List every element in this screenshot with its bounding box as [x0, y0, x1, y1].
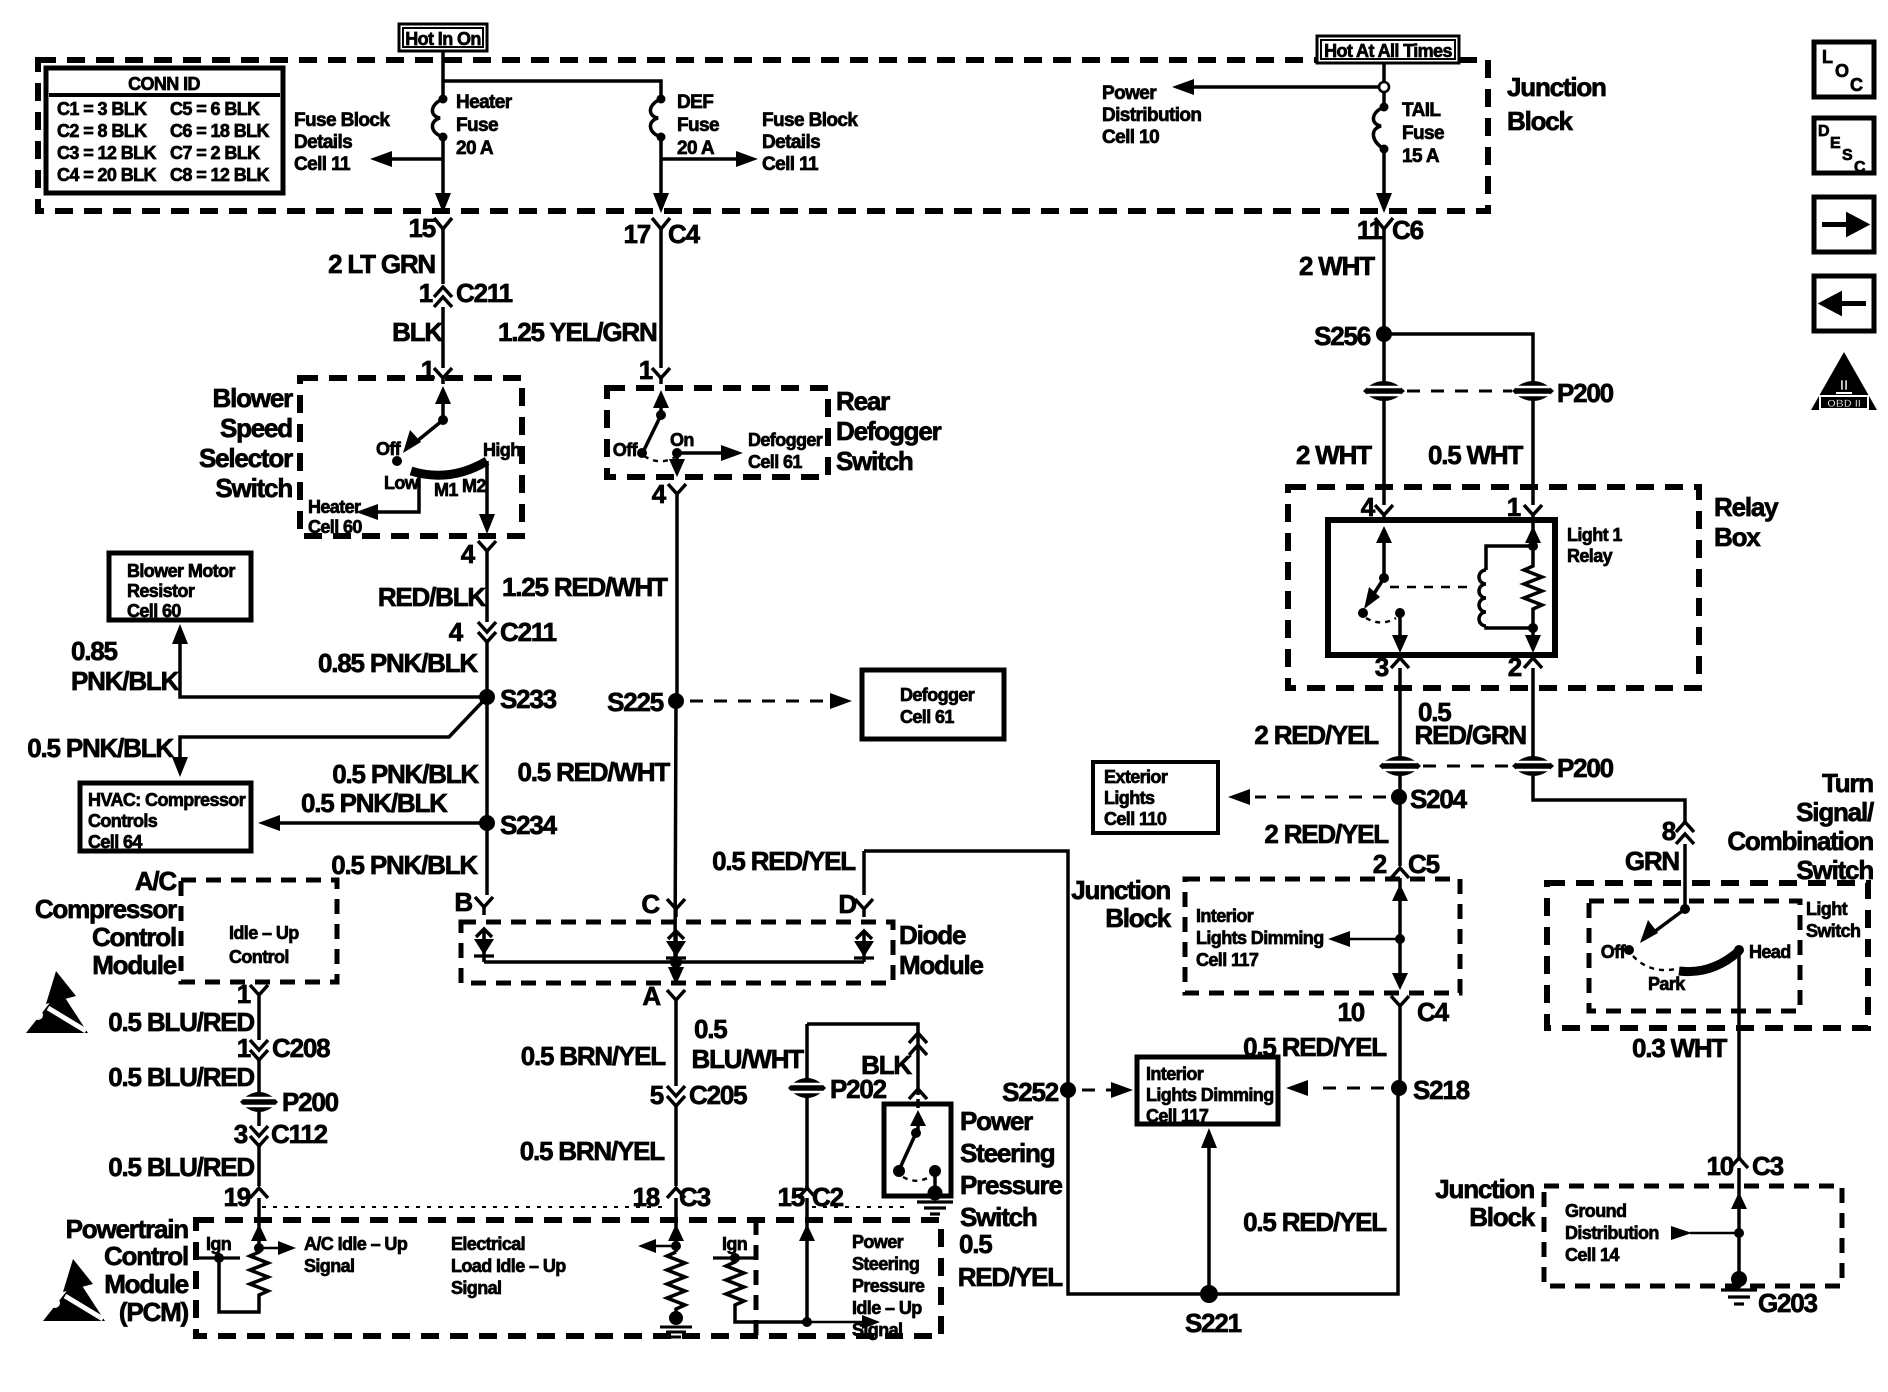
connector 15 C2 at PCM [777, 1182, 843, 1219]
svg-text:15: 15 [408, 213, 435, 243]
connector 1 at blower switch [421, 355, 452, 385]
svg-text:1: 1 [639, 355, 653, 385]
wire heater fuse to connector 15 [441, 137, 445, 205]
page connector chevrons 8 GRN [1662, 816, 1694, 846]
svg-text:C4: C4 [1417, 997, 1450, 1027]
junction block label (middle) [1071, 875, 1171, 933]
wire C211 to blower switch [441, 307, 445, 368]
Powertrain Control Module dashed box [196, 1220, 941, 1336]
relay output wire to pin 3 [1392, 613, 1408, 653]
grommet P200 (left, 2 WHT) [1363, 381, 1405, 401]
Junction Block dashed box (interior lights dimming) [1185, 879, 1460, 993]
svg-text:L: L [1822, 47, 1833, 67]
Hot In On label box [399, 24, 487, 51]
wire 11 C6 to S256 [1382, 234, 1386, 395]
svg-text:Details: Details [294, 132, 352, 153]
Light Switch label [1806, 899, 1860, 941]
arrow down to HVAC box [172, 757, 188, 777]
Light Switch dashed box [1589, 901, 1800, 1011]
svg-text:C5 = 6 BLK: C5 = 6 BLK [170, 99, 260, 119]
blower switch High output wire [479, 461, 495, 534]
svg-text:S221: S221 [1185, 1308, 1242, 1338]
svg-text:Ign: Ign [722, 1234, 747, 1254]
svg-text:0.5 BRN/YEL: 0.5 BRN/YEL [521, 1041, 667, 1071]
svg-text:G203: G203 [1758, 1288, 1818, 1318]
svg-text:Junction: Junction [1507, 72, 1606, 102]
light switch dashed travel arc [1633, 956, 1676, 970]
svg-text:Fuse: Fuse [1402, 123, 1444, 144]
defogger switch input arrow [653, 390, 669, 420]
dashed arrow S204 to Exterior Lights box [1228, 789, 1386, 805]
svg-text:C4: C4 [668, 219, 701, 249]
diode C [666, 931, 686, 962]
svg-text:4: 4 [449, 617, 464, 647]
svg-text:Details: Details [762, 132, 820, 153]
svg-text:Lights Dimming: Lights Dimming [1196, 928, 1324, 948]
svg-text:P200: P200 [1557, 378, 1614, 408]
svg-text:0.5 PNK/BLK: 0.5 PNK/BLK [332, 759, 479, 789]
svg-text:High: High [483, 440, 521, 460]
blower switch Low tap to Heater Cell 60 [308, 474, 419, 537]
svg-text:C8 = 12 BLK: C8 = 12 BLK [170, 165, 270, 185]
fuse Heater Fuse 20 A [432, 92, 512, 159]
defogger Off contact [613, 440, 647, 460]
connector 11 C6 [1357, 215, 1424, 245]
page connector chevrons on BLK wire [909, 1033, 927, 1055]
svg-text:Light: Light [1806, 899, 1848, 919]
dashed arrow S225 to Defogger Cell 61 box [690, 693, 852, 709]
Light 1 Relay solid box [1328, 520, 1555, 655]
PCM pin 19 internal circuit [251, 1219, 296, 1255]
connector C [641, 889, 685, 919]
wire TAIL fuse to connector 11 [1382, 149, 1386, 205]
svg-text:2 RED/YEL: 2 RED/YEL [1254, 720, 1379, 750]
relay pin 2 connector [1508, 652, 1542, 682]
Turn Signal Combination Switch dashed box [1547, 883, 1868, 1028]
svg-text:Fuse: Fuse [677, 115, 719, 136]
svg-text:Light 1: Light 1 [1567, 525, 1622, 545]
Exterior Lights Cell 110 box [1093, 762, 1218, 833]
wire S233 to Blower Motor Resistor with arrow [172, 624, 487, 697]
node S221 with arrow up [1185, 1128, 1242, 1338]
svg-text:1: 1 [237, 979, 251, 1009]
blower switch input arrow [435, 386, 451, 425]
svg-text:A/C Idle – Up: A/C Idle – Up [304, 1234, 408, 1254]
svg-text:Cell 60: Cell 60 [127, 601, 181, 621]
connector 4 below defogger switch [652, 479, 686, 509]
svg-text:3: 3 [1375, 652, 1389, 682]
node S218 [1391, 1075, 1470, 1105]
arrow to Fuse Block Details Cell 11 (left) [294, 110, 443, 175]
svg-text:A/C: A/C [135, 866, 178, 896]
wire Head output 0.3 WHT [1737, 950, 1741, 1158]
svg-text:C6: C6 [1392, 215, 1424, 245]
Powertrain Control Module label [66, 1214, 189, 1327]
svg-text:0.5 RED/YEL: 0.5 RED/YEL [1243, 1032, 1387, 1062]
svg-text:Defogger: Defogger [900, 685, 975, 705]
blower switch wiper arm to Off [392, 420, 443, 466]
svg-text:Block: Block [1507, 106, 1574, 136]
svg-text:PNK/BLK: PNK/BLK [71, 666, 180, 696]
resistor (A/C idle-up) [219, 1248, 268, 1312]
svg-text:Block: Block [1105, 903, 1172, 933]
wire 17 to defogger switch [659, 234, 663, 368]
svg-text:D: D [1818, 123, 1830, 140]
svg-text:Speed: Speed [220, 413, 292, 443]
wire C to A output arrow [668, 962, 684, 985]
junction block (fuse block) outer dashed box [38, 60, 1488, 211]
relay pin 4 connector [1361, 492, 1393, 522]
Diode Module label [899, 920, 984, 980]
defogger output wire [669, 453, 685, 477]
svg-text:Cell 64: Cell 64 [88, 832, 142, 852]
Interior Lights Dimming Cell 117 box [1137, 1057, 1278, 1126]
relay switch arm [1358, 578, 1384, 618]
svg-text:0.85: 0.85 [71, 636, 118, 666]
connector C208 pin 1 [237, 1033, 330, 1063]
connector into power steering switch [909, 1089, 927, 1108]
wire to C211 pin 4 [485, 557, 489, 622]
svg-text:Junction: Junction [1071, 875, 1170, 905]
connector C211 pin 1 [419, 278, 513, 308]
Turn Signal Combination Switch label [1727, 768, 1874, 885]
svg-text:Control: Control [229, 947, 289, 967]
svg-text:(PCM): (PCM) [119, 1297, 189, 1327]
thin dotted connector line C3 [262, 1206, 666, 1208]
svg-text:Fuse Block: Fuse Block [294, 110, 390, 131]
arrow ground distribution to wire [1671, 1226, 1744, 1240]
node S204 [1391, 776, 1468, 866]
svg-text:Off: Off [1601, 942, 1627, 962]
right arrow icon [1814, 197, 1874, 252]
arrow to Power Distribution Cell 10 [1102, 79, 1389, 148]
connector 10 C3 [1706, 1151, 1783, 1186]
dashed arrow S218 to Interior Lights Dimming box [1286, 1080, 1384, 1096]
connector 10 C4 [1337, 996, 1449, 1027]
svg-text:Defogger: Defogger [748, 430, 823, 450]
node S234 with arrow to HVAC [258, 810, 558, 840]
svg-text:Switch: Switch [1806, 921, 1860, 941]
wire C211 to S233 [485, 642, 489, 697]
svg-text:Power: Power [960, 1106, 1033, 1136]
connector C211 pin 4 [449, 617, 557, 647]
connector 17 C4 [623, 218, 700, 249]
svg-text:Switch: Switch [215, 473, 292, 503]
svg-text:II: II [1840, 377, 1848, 394]
wire C205 to PCM pin 18 [674, 1106, 678, 1219]
A/C Idle-Up Signal label [304, 1234, 408, 1276]
Rear Defogger Switch dashed box [607, 388, 828, 477]
svg-text:10: 10 [1337, 997, 1364, 1027]
svg-text:Module: Module [899, 950, 984, 980]
svg-text:GRN: GRN [1625, 846, 1680, 876]
svg-text:P202: P202 [830, 1074, 887, 1104]
svg-text:Off: Off [376, 439, 402, 459]
svg-text:Power: Power [852, 1232, 904, 1252]
wire Hot At All Times down [1382, 63, 1386, 103]
svg-text:Power: Power [1102, 83, 1157, 104]
svg-text:E: E [1830, 135, 1841, 152]
svg-text:On: On [670, 430, 694, 450]
svg-text:Distribution: Distribution [1565, 1223, 1659, 1243]
Defogger Cell 61 box [862, 670, 1004, 739]
svg-text:Steering: Steering [852, 1254, 919, 1274]
svg-text:S218: S218 [1413, 1075, 1470, 1105]
svg-text:2 LT GRN: 2 LT GRN [328, 249, 435, 279]
A/C Compressor Control Module label [35, 866, 178, 980]
wire BLK riser corner to P202 drop [807, 1024, 918, 1095]
svg-text:C7 = 2 BLK: C7 = 2 BLK [170, 143, 260, 163]
wire D drop into diode module [862, 851, 866, 895]
ground (electrical load) [660, 1311, 692, 1337]
connector C205 pin 5 [650, 1080, 747, 1110]
svg-text:C2: C2 [812, 1182, 844, 1212]
DESC icon [1814, 118, 1874, 176]
svg-text:Switch: Switch [836, 446, 913, 476]
svg-text:Ign: Ign [206, 1234, 231, 1254]
svg-text:RED/GRN: RED/GRN [1415, 720, 1527, 750]
svg-text:Relay: Relay [1714, 492, 1779, 522]
svg-text:Cell 11: Cell 11 [762, 154, 819, 175]
OBD II triangle icon [1811, 352, 1877, 410]
relay resistor [1524, 520, 1542, 633]
svg-text:C2 = 8 BLK: C2 = 8 BLK [57, 121, 147, 141]
svg-text:M1: M1 [434, 480, 458, 500]
svg-text:Switch: Switch [960, 1202, 1037, 1232]
A/C Compressor Control Module dashed box [181, 880, 337, 982]
Blower Speed Selector Switch dashed box [300, 378, 522, 536]
svg-text:Cell 60: Cell 60 [308, 517, 362, 537]
wire horizontal feed to DEF fuse [443, 81, 661, 95]
svg-text:TAIL: TAIL [1402, 100, 1441, 121]
Diode Module dashed box [461, 922, 893, 983]
svg-text:Cell 11: Cell 11 [294, 154, 351, 175]
node at C on bus [670, 956, 682, 968]
blower switch contact arc [411, 461, 487, 475]
Ign rail (right) [713, 1234, 757, 1263]
power steering switch contacts [893, 1110, 941, 1188]
connector 15 [408, 213, 452, 243]
junction block label [1507, 72, 1606, 136]
svg-text:P200: P200 [282, 1087, 339, 1117]
svg-text:20 A: 20 A [456, 138, 494, 159]
node S233 [479, 684, 557, 714]
svg-text:Defogger: Defogger [836, 416, 942, 446]
wire P200 to C112 [257, 1112, 261, 1126]
svg-text:Pressure: Pressure [960, 1170, 1062, 1200]
resistor (power steering) [726, 1258, 806, 1322]
svg-text:2 WHT: 2 WHT [1296, 440, 1372, 470]
wire DEF fuse to connector 17 [659, 137, 663, 205]
svg-text:Module: Module [92, 950, 177, 980]
svg-text:Module: Module [104, 1269, 189, 1299]
svg-text:C208: C208 [272, 1033, 330, 1063]
svg-text:S233: S233 [500, 684, 557, 714]
Hot At All Times label box [1317, 36, 1459, 63]
svg-text:4: 4 [652, 479, 667, 509]
svg-text:RED/YEL: RED/YEL [958, 1262, 1064, 1292]
PCM pin 15 internal circuit [799, 1219, 880, 1329]
wire into ground junction block [1731, 1186, 1747, 1277]
blower switch position labels [376, 439, 521, 500]
svg-text:0.5 BLU/RED: 0.5 BLU/RED [108, 1007, 254, 1037]
svg-text:Cell 10: Cell 10 [1102, 127, 1159, 148]
svg-text:Park: Park [1648, 974, 1686, 994]
svg-text:C: C [641, 889, 660, 919]
svg-text:Signal: Signal [451, 1278, 501, 1298]
svg-text:Fuse: Fuse [456, 115, 498, 136]
svg-text:S225: S225 [607, 687, 664, 717]
svg-text:Heater: Heater [308, 497, 361, 517]
svg-text:0.5 PNK/BLK: 0.5 PNK/BLK [27, 733, 174, 763]
wire 15 to C211 [441, 234, 445, 284]
defogger switch arm to Off [644, 415, 661, 450]
Ign rail (left) [199, 1234, 240, 1263]
ground at power steering switch [917, 1186, 953, 1215]
svg-text:Relay: Relay [1567, 546, 1613, 566]
svg-text:OBD II: OBD II [1827, 398, 1861, 410]
connector B [454, 887, 493, 917]
relay pin 1 internal down arrow [1525, 628, 1541, 653]
wire 10 C4 to S218 [1398, 1012, 1402, 1088]
wire 0.5 RED/GRN label [1415, 697, 1527, 750]
svg-text:Control: Control [104, 1241, 188, 1271]
relay switch common [1376, 526, 1392, 583]
svg-text:1.25 RED/WHT: 1.25 RED/WHT [502, 572, 668, 602]
svg-text:15: 15 [777, 1182, 804, 1212]
fuse DEF Fuse 20 A [650, 92, 719, 159]
light switch Off contact [1601, 942, 1634, 962]
svg-text:Rear: Rear [836, 386, 890, 416]
svg-text:0.3 WHT: 0.3 WHT [1632, 1033, 1727, 1063]
relay actuation dashed link [1390, 586, 1474, 589]
wire D branch from S252 riser [864, 851, 1068, 1090]
svg-text:0.5: 0.5 [694, 1014, 727, 1044]
svg-text:C: C [1854, 159, 1866, 176]
svg-text:1: 1 [419, 278, 433, 308]
svg-text:8: 8 [1662, 816, 1676, 846]
svg-text:C3 = 12 BLK: C3 = 12 BLK [57, 143, 157, 163]
dashed link between P200 grommets [1407, 390, 1512, 393]
svg-text:DEF: DEF [677, 92, 713, 113]
Power Steering Pressure Switch label [960, 1106, 1062, 1232]
svg-text:2 RED/YEL: 2 RED/YEL [1264, 819, 1389, 849]
Light 1 Relay label [1567, 525, 1622, 566]
svg-text:Switch: Switch [1796, 855, 1873, 885]
wire C112 to PCM pin 19 [257, 1146, 261, 1186]
svg-text:C112: C112 [271, 1119, 328, 1149]
svg-text:Interior: Interior [1146, 1064, 1204, 1084]
svg-text:BLK: BLK [392, 317, 443, 347]
svg-text:1: 1 [237, 1033, 251, 1063]
svg-text:C6 = 18 BLK: C6 = 18 BLK [170, 121, 270, 141]
svg-text:Control: Control [92, 922, 176, 952]
PCM internal dashed divider [754, 1220, 759, 1336]
svg-text:0.5 BLU/RED: 0.5 BLU/RED [108, 1152, 254, 1182]
resistor (electrical load) [667, 1252, 685, 1313]
svg-text:2 WHT: 2 WHT [1299, 251, 1375, 281]
connector D [838, 889, 873, 919]
svg-text:RED/BLK: RED/BLK [378, 582, 487, 612]
svg-text:S: S [1842, 147, 1853, 164]
svg-text:Selector: Selector [199, 443, 293, 473]
svg-text:C5: C5 [1408, 849, 1440, 879]
svg-text:Interior: Interior [1196, 906, 1254, 926]
svg-text:0.5: 0.5 [959, 1229, 992, 1259]
Relay Box dashed box [1288, 487, 1699, 688]
wire P202 drop [805, 1024, 809, 1190]
svg-text:C205: C205 [689, 1080, 747, 1110]
Electrical Load Idle-Up Signal label [451, 1234, 566, 1298]
HVAC Compressor Controls Cell 64 box [80, 783, 251, 852]
svg-text:S234: S234 [500, 810, 558, 840]
svg-text:Turn: Turn [1822, 768, 1873, 798]
junction block label (ground) [1435, 1174, 1535, 1232]
ESD symbol (PCM) [43, 1259, 105, 1321]
wire S233 diagonal to HVAC branch [180, 697, 487, 767]
svg-text:Hot In On: Hot In On [405, 29, 481, 49]
ground G203 [1721, 1271, 1818, 1318]
svg-text:Signal: Signal [304, 1256, 354, 1276]
svg-text:A: A [642, 981, 661, 1011]
svg-text:C211: C211 [456, 278, 513, 308]
svg-text:Powertrain: Powertrain [66, 1214, 189, 1244]
node S225 [607, 687, 684, 717]
wire 0.5 RED/YEL label (two lines) [958, 1229, 1064, 1292]
svg-text:20 A: 20 A [677, 138, 715, 159]
arrow to Fuse Block Details Cell 11 (right) [661, 110, 858, 175]
grommet P202 [788, 1074, 887, 1104]
wire C208 to P200 [257, 1060, 261, 1093]
Junction Block dashed box (ground distribution) [1544, 1186, 1842, 1286]
svg-text:M2: M2 [462, 476, 486, 496]
PCM pin 18 internal circuit [638, 1219, 684, 1253]
fuse TAIL Fuse 15 A [1373, 100, 1444, 167]
connector 18 C3 at PCM [632, 1182, 710, 1212]
node S256 with branch [1314, 321, 1533, 383]
svg-text:Junction: Junction [1435, 1174, 1534, 1204]
grommet P200 (pin 3 wire) [1379, 756, 1421, 776]
defogger On contact [670, 430, 694, 458]
svg-text:Distribution: Distribution [1102, 105, 1201, 126]
Idle-Up Control label [229, 923, 299, 967]
svg-text:0.5 RED/WHT: 0.5 RED/WHT [518, 757, 671, 787]
svg-text:Cell 110: Cell 110 [1104, 809, 1167, 829]
svg-text:Resistor: Resistor [127, 581, 195, 601]
wire P200 to light switch riser [1533, 776, 1685, 822]
Blower Speed Selector Switch label [199, 383, 293, 503]
diode B [474, 929, 494, 962]
relay switch closed contact [1366, 608, 1405, 623]
svg-text:B: B [454, 887, 472, 917]
svg-text:C3: C3 [679, 1182, 711, 1212]
light switch contact arc Park to Head [1679, 951, 1739, 972]
svg-text:0.85 PNK/BLK: 0.85 PNK/BLK [318, 648, 478, 678]
connector 1 at defogger switch [639, 355, 670, 385]
wire 0.5 BLU/WHT label [692, 1014, 805, 1074]
connector 2 C5 [1373, 849, 1440, 879]
diode D [854, 931, 874, 962]
wire from Hot In On to fuses [441, 51, 445, 95]
svg-text:Hot At All Times: Hot At All Times [1324, 41, 1452, 61]
Relay Box label [1714, 492, 1779, 552]
relay pin 1 connector [1507, 492, 1542, 522]
svg-text:0.5 PNK/BLK: 0.5 PNK/BLK [301, 788, 448, 818]
svg-text:Signal/: Signal/ [1796, 797, 1874, 827]
light switch Head contact [1734, 942, 1791, 962]
wire S252 to S221 bus [1068, 1088, 1398, 1294]
svg-text:Diode: Diode [899, 920, 966, 950]
